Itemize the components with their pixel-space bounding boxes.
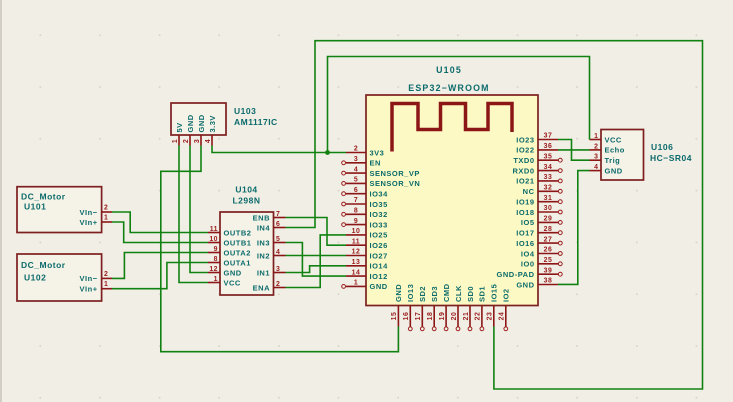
- svg-text:29: 29: [544, 216, 553, 223]
- U105 pin 9 unconnected flag: [342, 223, 346, 227]
- svg-text:OUTA1: OUTA1: [224, 258, 251, 267]
- U105 pin 29 unconnected flag: [558, 221, 562, 225]
- U104 pin 11 (OUTB2) stub: [208, 232, 220, 234]
- wire U104 ENB to U105 IO26: [286, 218, 347, 246]
- svg-text:17: 17: [415, 312, 422, 321]
- svg-text:OUTB1: OUTB1: [224, 238, 252, 247]
- svg-text:2: 2: [183, 139, 190, 143]
- U104 pin 12 (GND) stub: [208, 272, 220, 274]
- svg-text:SENSOR_VP: SENSOR_VP: [370, 169, 420, 178]
- svg-text:VIn−: VIn−: [80, 274, 98, 283]
- svg-text:GND: GND: [394, 284, 403, 302]
- svg-text:DC_Motor: DC_Motor: [21, 260, 66, 270]
- svg-text:U103: U103: [234, 106, 256, 116]
- U105 pin 27 (IO16) stub: [538, 242, 558, 244]
- svg-text:IO17: IO17: [516, 229, 534, 238]
- wire U105 IO23 to U106 Trig: [558, 140, 590, 161]
- svg-text:3: 3: [354, 156, 358, 163]
- svg-text:34: 34: [544, 164, 553, 171]
- svg-text:VCC: VCC: [224, 278, 241, 287]
- svg-text:3: 3: [276, 266, 280, 273]
- svg-text:IO22: IO22: [516, 146, 534, 155]
- svg-text:U101: U101: [24, 202, 46, 212]
- svg-text:8: 8: [354, 208, 358, 215]
- svg-text:6: 6: [276, 221, 280, 228]
- svg-text:Trig: Trig: [605, 156, 621, 165]
- U105 pin 16 unconnected flag: [408, 327, 412, 331]
- svg-text:21: 21: [463, 312, 470, 321]
- U103 pin 3 (GND) stub: [200, 135, 202, 146]
- U105 pin 31 unconnected flag: [558, 200, 562, 204]
- U104 pin 4 (IN2) stub: [274, 255, 286, 257]
- U105 pin 37 (IO23) stub: [538, 139, 558, 141]
- svg-text:2: 2: [594, 143, 598, 150]
- U101 pin 1 (VIn+) stub: [102, 221, 112, 223]
- svg-text:10: 10: [209, 236, 218, 243]
- svg-text:IO12: IO12: [370, 272, 388, 281]
- svg-text:2: 2: [104, 205, 108, 212]
- U106 pin 2 (Echo) stub: [590, 149, 602, 151]
- svg-text:IO16: IO16: [516, 239, 534, 248]
- svg-text:U104: U104: [235, 185, 257, 195]
- wire U104 ENA to U105 IO25: [286, 235, 347, 288]
- svg-text:IO18: IO18: [516, 208, 534, 217]
- wire U102 VIn- to U104 OUTA2: [112, 253, 208, 279]
- U106 pin 4 (GND) stub: [590, 170, 602, 172]
- svg-text:GND: GND: [516, 280, 534, 289]
- U104 pin 10 (OUTB1) stub: [208, 242, 220, 244]
- svg-text:25: 25: [544, 257, 553, 264]
- U105 pin 17 (SD2) stub: [421, 306, 423, 327]
- svg-text:20: 20: [451, 312, 458, 321]
- U105 pin 4 unconnected flag: [342, 171, 346, 175]
- svg-text:EN: EN: [370, 159, 381, 168]
- U105 pin 5 unconnected flag: [342, 182, 346, 186]
- svg-text:L298N: L298N: [232, 196, 260, 206]
- svg-text:15: 15: [391, 312, 398, 321]
- U105 pin 34 (RXD0) stub: [538, 170, 558, 172]
- sensor U106 body: [601, 130, 644, 181]
- U104 pin 9 (OUTA2) stub: [208, 252, 220, 254]
- regulator U103 body: [171, 103, 226, 135]
- svg-text:VIn+: VIn+: [80, 218, 98, 227]
- U105 pin 30 unconnected flag: [558, 210, 562, 214]
- svg-text:Echo: Echo: [605, 146, 625, 155]
- U105 pin 18 unconnected flag: [432, 327, 436, 331]
- svg-text:CLK: CLK: [454, 285, 463, 302]
- svg-text:SD2: SD2: [418, 286, 427, 302]
- svg-text:SENSOR_VN: SENSOR_VN: [370, 179, 421, 188]
- U105 pin 27 unconnected flag: [558, 241, 562, 245]
- U105 pin 7 (IO35) stub: [346, 203, 366, 205]
- U105 pin 7 unconnected flag: [342, 202, 346, 206]
- svg-text:22: 22: [475, 312, 482, 321]
- svg-text:8: 8: [214, 256, 218, 263]
- svg-text:2: 2: [354, 146, 358, 153]
- svg-text:GND: GND: [197, 114, 206, 132]
- U105 pin 17 unconnected flag: [420, 327, 424, 331]
- svg-text:1: 1: [594, 133, 598, 140]
- svg-text:ENB: ENB: [253, 213, 270, 222]
- svg-text:DC_Motor: DC_Motor: [21, 192, 66, 202]
- svg-text:27: 27: [544, 236, 553, 243]
- U105 pin 1 unconnected flag: [342, 285, 346, 289]
- U105 pin 5 (SENSOR_VN) stub: [346, 182, 366, 184]
- U105 pin 8 unconnected flag: [342, 212, 346, 216]
- wire 3V3: junction to U106 VCC: [328, 57, 590, 153]
- U105 pin 8 (IO32) stub: [346, 213, 366, 215]
- svg-text:IN2: IN2: [257, 251, 270, 260]
- svg-text:12: 12: [209, 266, 218, 273]
- svg-text:VIn+: VIn+: [80, 285, 98, 294]
- U105 pin 25 unconnected flag: [558, 262, 562, 266]
- U105 pin 35 unconnected flag: [558, 158, 562, 162]
- U105 pin 39 unconnected flag: [558, 272, 562, 276]
- svg-text:1: 1: [354, 280, 358, 287]
- U105 pin 39 (GND-PAD) stub: [538, 273, 558, 275]
- svg-text:IN4: IN4: [257, 223, 271, 232]
- svg-text:28: 28: [544, 226, 553, 233]
- svg-text:IN3: IN3: [257, 238, 270, 247]
- U106 pin 3 (Trig) stub: [590, 159, 602, 161]
- U105 pin 26 unconnected flag: [558, 252, 562, 256]
- U105 pin 28 unconnected flag: [558, 231, 562, 235]
- U105 pin 21 unconnected flag: [468, 327, 472, 331]
- svg-text:11: 11: [210, 226, 218, 233]
- svg-text:SD3: SD3: [430, 286, 439, 302]
- svg-text:OUTA2: OUTA2: [224, 248, 251, 257]
- svg-text:VIn−: VIn−: [80, 208, 98, 217]
- U105 pin 28 (IO17) stub: [538, 232, 558, 234]
- wire U101 VIn+ to U104 OUTB1: [112, 222, 208, 243]
- wire sheet-frame-left-edge: [0, 0, 2, 402]
- mcu U105 body: [366, 95, 538, 306]
- svg-text:3: 3: [194, 139, 201, 143]
- wire U102 VIn+ to U104 OUTA1: [112, 263, 208, 289]
- svg-text:GND: GND: [370, 282, 388, 291]
- U104 pin 7 (ENB) stub: [274, 217, 286, 219]
- svg-text:4: 4: [276, 249, 280, 256]
- U105 pin 34 unconnected flag: [558, 169, 562, 173]
- svg-text:GND-PAD: GND-PAD: [497, 270, 535, 279]
- U105 pin 20 (CLK) stub: [457, 306, 459, 327]
- U105 pin 1 (GND) stub: [346, 285, 366, 287]
- svg-text:39: 39: [544, 267, 553, 274]
- svg-text:5: 5: [354, 177, 358, 184]
- U104 pin 5 (IN3) stub: [274, 242, 286, 244]
- U105 pin 14 (IO12) stub: [346, 275, 366, 277]
- U105 pin 20 unconnected flag: [456, 327, 460, 331]
- svg-text:U105: U105: [436, 65, 462, 75]
- U105 pin 29 (IO5) stub: [538, 221, 558, 223]
- svg-text:IO19: IO19: [516, 198, 534, 207]
- svg-text:9: 9: [354, 218, 358, 225]
- svg-text:30: 30: [544, 205, 553, 212]
- U104 pin 6 (IN4) stub: [274, 227, 286, 229]
- svg-text:IO5: IO5: [521, 218, 535, 227]
- U105 pin 26 (IO4) stub: [538, 253, 558, 255]
- svg-text:16: 16: [403, 312, 410, 321]
- svg-text:4: 4: [354, 166, 358, 173]
- svg-text:IO34: IO34: [370, 190, 389, 199]
- U105 pin 32 (NC) stub: [538, 190, 558, 192]
- svg-text:11: 11: [352, 238, 360, 245]
- svg-text:IO15: IO15: [490, 284, 499, 302]
- svg-text:14: 14: [352, 269, 361, 276]
- wire GND: U103 pin3 to U105 GND pin15: [161, 146, 399, 352]
- svg-text:3.3V: 3.3V: [208, 115, 217, 132]
- wire U104 IN4 to U105 IO15 outer loop: [286, 41, 703, 389]
- wire 3V3: U103 pin4 to U105 3V3 pin2: [212, 146, 346, 153]
- svg-text:ENA: ENA: [253, 283, 270, 292]
- U105 pin 6 (IO34) stub: [346, 193, 366, 195]
- svg-text:IO14: IO14: [370, 262, 389, 271]
- U105 pin 13 (IO14) stub: [346, 265, 366, 267]
- svg-text:6: 6: [354, 187, 358, 194]
- wire U105 IO22 to U106 Echo: [558, 149, 590, 151]
- svg-text:37: 37: [544, 133, 553, 140]
- svg-text:32: 32: [544, 185, 553, 192]
- svg-text:SD1: SD1: [478, 286, 487, 302]
- svg-text:IO25: IO25: [370, 231, 388, 240]
- svg-text:OUTB2: OUTB2: [224, 228, 252, 237]
- U103 pin 2 (GND) stub: [189, 135, 191, 146]
- svg-text:36: 36: [544, 143, 553, 150]
- svg-text:2: 2: [276, 281, 280, 288]
- wire U104 IN2 to U105 IO27: [286, 255, 347, 257]
- U105 pin 25 (IO0) stub: [538, 263, 558, 265]
- U105 pin 21 (SD0) stub: [469, 306, 471, 327]
- U105 pin 35 (TXD0) stub: [538, 159, 558, 161]
- U105 pin 36 (IO22) stub: [538, 149, 558, 151]
- svg-text:GND: GND: [605, 166, 623, 175]
- U104 pin 3 (IN1) stub: [274, 272, 286, 274]
- svg-text:VCC: VCC: [605, 135, 622, 144]
- U104 pin 1 (VCC) stub: [208, 282, 220, 284]
- U105 antenna symbol: [392, 104, 512, 152]
- svg-text:1: 1: [172, 139, 179, 143]
- svg-text:10: 10: [352, 228, 361, 235]
- svg-text:5: 5: [276, 236, 280, 243]
- wire U104 IN3 to U105 IO12: [286, 243, 347, 277]
- svg-text:13: 13: [352, 259, 361, 266]
- U105 pin 19 unconnected flag: [444, 327, 448, 331]
- U105 pin 23 (IO15) stub: [493, 306, 495, 327]
- svg-text:IO23: IO23: [516, 135, 534, 144]
- svg-text:38: 38: [544, 278, 553, 285]
- svg-text:IO21: IO21: [516, 177, 534, 186]
- U104 pin 2 (ENA) stub: [274, 287, 286, 289]
- svg-text:9: 9: [214, 246, 218, 253]
- U102 pin 2 (VIn-) stub: [102, 277, 112, 279]
- U104 pin 8 (OUTA1) stub: [208, 262, 220, 264]
- svg-text:IO32: IO32: [370, 210, 388, 219]
- U102 pin 1 (VIn+) stub: [102, 288, 112, 290]
- U105 pin 24 (IO2) stub: [505, 306, 507, 327]
- U105 pin 9 (IO33) stub: [346, 224, 366, 226]
- svg-text:4: 4: [205, 139, 212, 143]
- U105 pin 31 (IO19) stub: [538, 201, 558, 203]
- svg-text:SD0: SD0: [466, 286, 475, 302]
- U105 pin 38 (GND) stub: [538, 284, 558, 286]
- svg-text:7: 7: [276, 211, 280, 218]
- svg-text:U102: U102: [24, 273, 46, 283]
- svg-text:26: 26: [544, 247, 553, 254]
- svg-text:2: 2: [104, 271, 108, 278]
- svg-text:31: 31: [544, 195, 553, 202]
- U105 pin 22 (SD1) stub: [481, 306, 483, 327]
- motor U102 body: [17, 254, 102, 301]
- svg-text:GND: GND: [186, 114, 195, 132]
- svg-text:NC: NC: [523, 187, 535, 196]
- U105 pin 3 unconnected flag: [342, 161, 346, 165]
- svg-text:TXD0: TXD0: [513, 156, 534, 165]
- svg-text:IO2: IO2: [502, 288, 511, 302]
- wire U104 IN1 to U105 IO14: [286, 266, 347, 273]
- svg-text:CMD: CMD: [442, 283, 451, 302]
- svg-text:1: 1: [104, 215, 108, 222]
- U106 pin 1 (VCC) stub: [590, 139, 602, 141]
- U105 pin 11 (IO26) stub: [346, 244, 366, 246]
- U105 pin 10 (IO25) stub: [346, 234, 366, 236]
- svg-text:18: 18: [427, 312, 434, 321]
- U105 pin 33 (IO21) stub: [538, 180, 558, 182]
- svg-text:IO4: IO4: [521, 249, 535, 258]
- svg-text:IN1: IN1: [257, 268, 270, 277]
- U105 pin 22 unconnected flag: [480, 327, 484, 331]
- U105 pin 32 unconnected flag: [558, 189, 562, 193]
- U105 pin 2 (3V3) stub: [346, 152, 366, 154]
- svg-text:3V3: 3V3: [370, 148, 385, 157]
- svg-text:4: 4: [594, 164, 598, 171]
- U103 pin 4 (3.3V) stub: [211, 135, 213, 146]
- svg-text:35: 35: [544, 153, 553, 160]
- U105 pin 6 unconnected flag: [342, 192, 346, 196]
- svg-text:AM1117IC: AM1117IC: [234, 117, 278, 127]
- svg-text:33: 33: [544, 174, 553, 181]
- U105 pin 15 (GND) stub: [397, 306, 399, 327]
- svg-text:12: 12: [352, 249, 361, 256]
- svg-text:IO35: IO35: [370, 200, 388, 209]
- svg-text:1: 1: [104, 281, 108, 288]
- svg-text:24: 24: [499, 312, 506, 321]
- svg-text:IO0: IO0: [521, 260, 535, 269]
- svg-text:GND: GND: [224, 268, 242, 277]
- wire U101 VIn- to U104 OUTB2: [112, 212, 208, 233]
- U105 pin 19 (CMD) stub: [445, 306, 447, 327]
- U105 pin 24 unconnected flag: [504, 327, 508, 331]
- svg-text:7: 7: [354, 197, 358, 204]
- U103 pin 1 (5V) stub: [178, 135, 180, 146]
- wire GND: U103 pin2 to U104 GND: [190, 146, 208, 273]
- motor U101 body: [17, 187, 102, 233]
- svg-text:3: 3: [594, 154, 598, 161]
- U105 pin 3 (EN) stub: [346, 162, 366, 164]
- svg-text:U106: U106: [651, 142, 673, 152]
- svg-text:19: 19: [439, 312, 446, 321]
- svg-text:IO33: IO33: [370, 220, 388, 229]
- svg-text:23: 23: [487, 312, 494, 321]
- svg-text:ESP32−WROOM: ESP32−WROOM: [408, 83, 489, 93]
- wire U105 GND pin38 to U106 GND: [558, 171, 590, 285]
- U105 pin 33 unconnected flag: [558, 179, 562, 183]
- svg-text:HC−SR04: HC−SR04: [650, 153, 692, 163]
- U105 pin 16 (IO13) stub: [409, 306, 411, 327]
- svg-text:IO13: IO13: [406, 284, 415, 302]
- driver U104 body: [220, 212, 274, 295]
- svg-text:IO26: IO26: [370, 241, 388, 250]
- svg-text:RXD0: RXD0: [512, 166, 534, 175]
- U105 pin 12 (IO27) stub: [346, 255, 366, 257]
- U105 pin 18 (SD3) stub: [433, 306, 435, 327]
- U101 pin 2 (VIn-) stub: [102, 211, 112, 213]
- svg-text:IO27: IO27: [370, 251, 388, 260]
- wire 5V: U103 pin1 to U104 VCC: [179, 146, 208, 283]
- U105 pin 4 (SENSOR_VP) stub: [346, 172, 366, 174]
- svg-text:1: 1: [214, 276, 218, 283]
- svg-text:5V: 5V: [175, 122, 184, 132]
- U105 pin 30 (IO18) stub: [538, 211, 558, 213]
- junction 3V3 node: [325, 150, 330, 155]
